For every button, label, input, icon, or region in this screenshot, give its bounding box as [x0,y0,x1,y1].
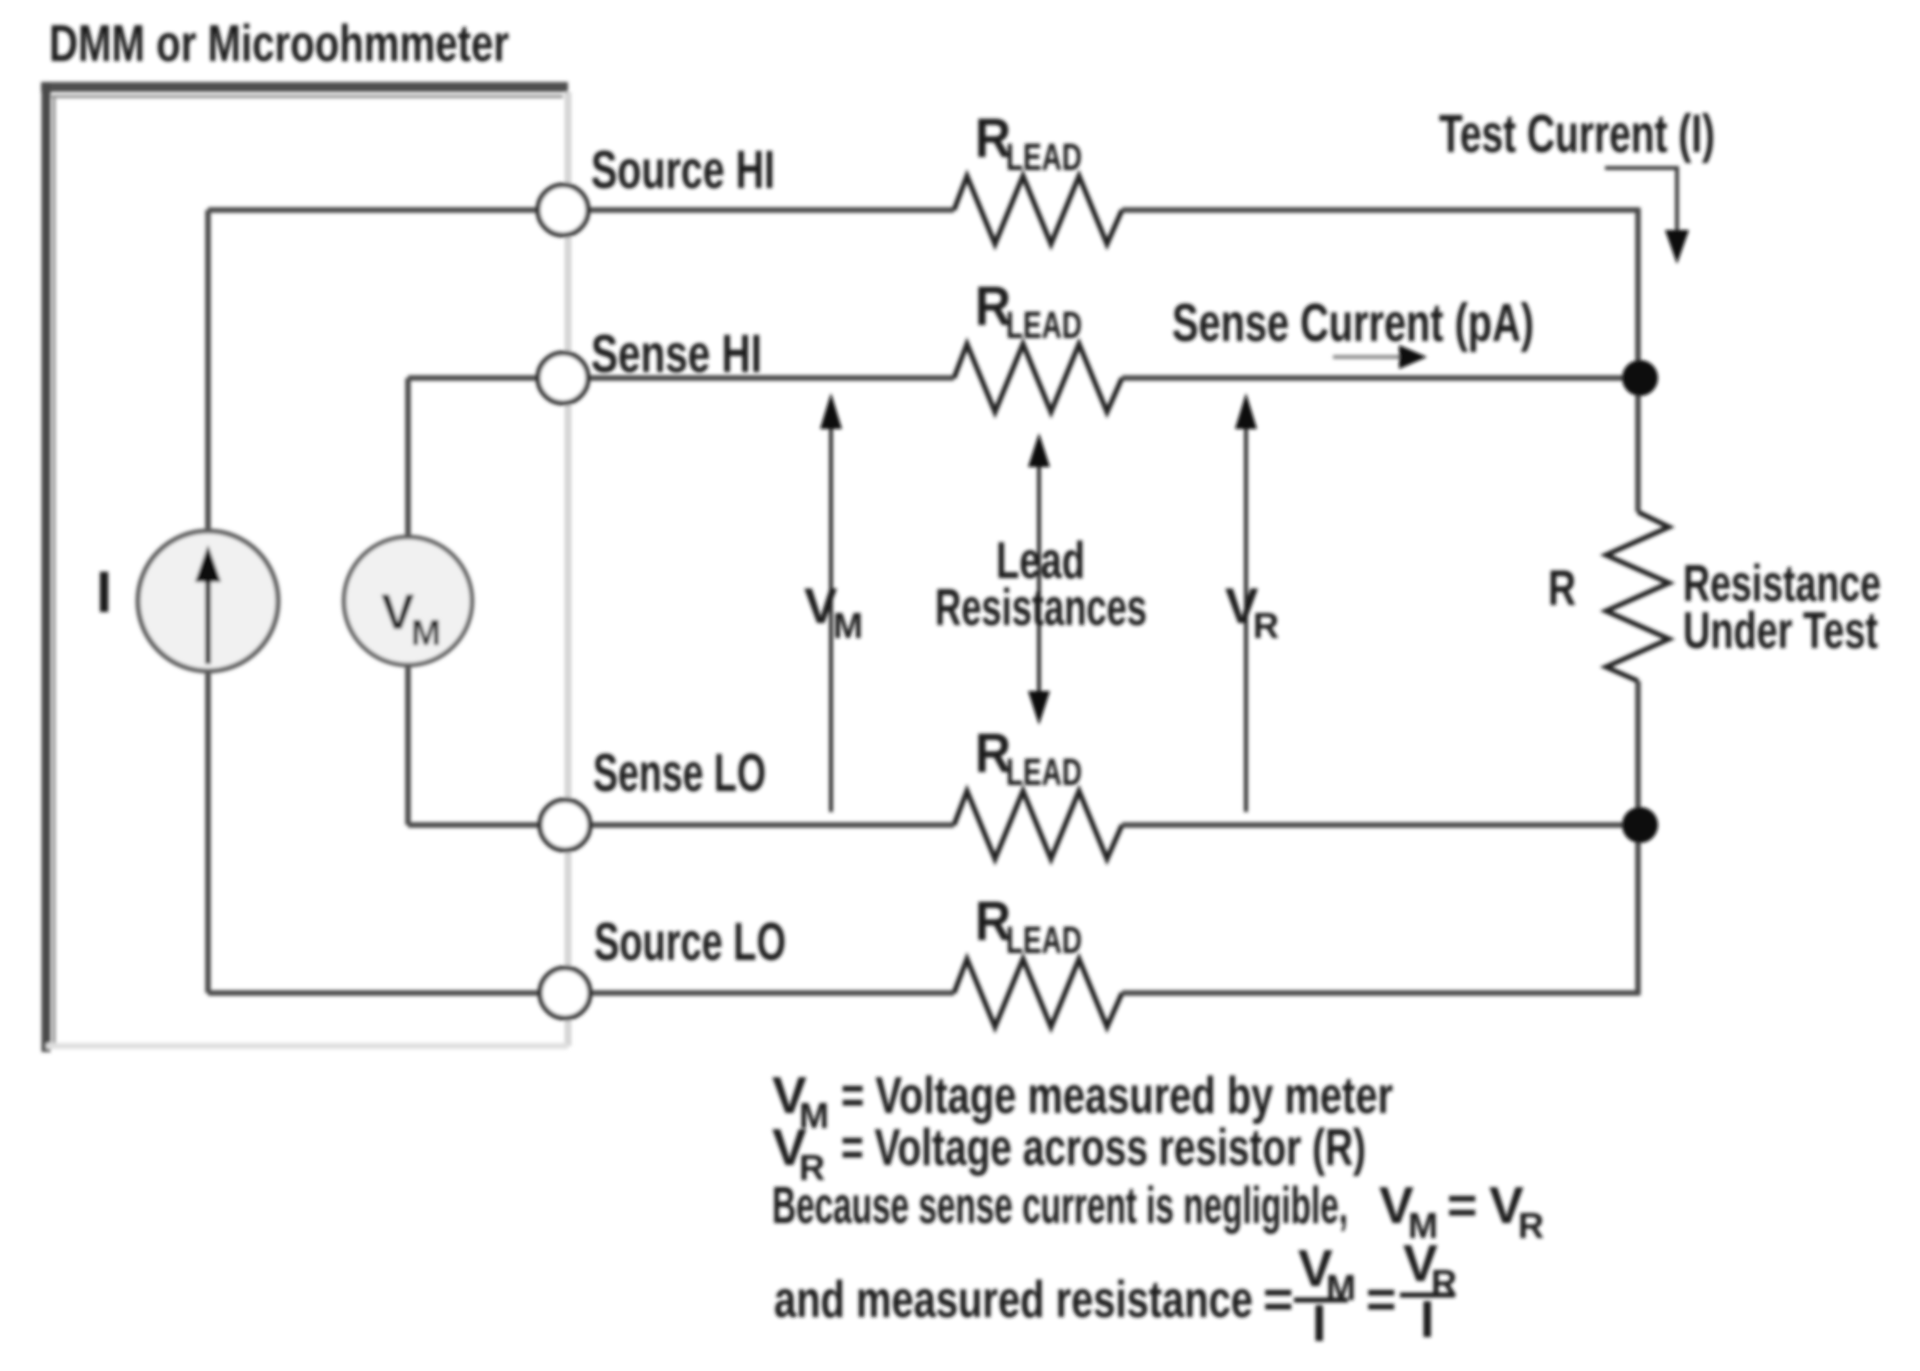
svg-text:M: M [833,605,863,646]
resistor R_LEAD (Sense HI) [954,344,1122,412]
terminal Sense LO [540,800,590,850]
svg-text:Sense Current (pA): Sense Current (pA) [1172,293,1534,353]
svg-text:Test Current (I): Test Current (I) [1439,104,1715,164]
wire: Source HI horizontal [208,207,954,213]
junction dot (Sense HI / right rail) [1622,360,1658,396]
wire: left loop vertical (current source branch) [205,210,211,993]
svg-text:R: R [1253,605,1279,646]
sense current arrow [1333,345,1427,369]
svg-text:R: R [1518,1205,1544,1246]
svg-text:LEAD: LEAD [1006,752,1082,794]
current source I [138,531,278,671]
svg-text:LEAD: LEAD [1006,305,1082,347]
label R_LEAD (Sense HI) [975,274,1082,347]
test current hook arrow [1605,168,1689,264]
svg-text:LEAD: LEAD [1006,137,1082,179]
label R_LEAD (Source HI) [975,106,1082,179]
svg-text:Sense HI: Sense HI [591,324,762,384]
svg-text:I: I [96,560,112,625]
label R_LEAD (Source LO) [975,889,1082,962]
arrow V_M (voltage measured) [820,393,842,812]
equation line 3: Because sense current is negligible, VM = VR [772,1177,1544,1246]
DMM enclosure box (left edge) [46,82,54,1052]
terminal Source LO [540,968,590,1018]
equation line 2: VR = Voltage across resistor (R) [772,1119,1366,1188]
resistor R_LEAD (Source LO) [954,959,1122,1027]
wire: Sense LO horizontal [408,822,954,828]
svg-text:Because sense current is negli: Because sense current is negligible, [772,1177,1348,1235]
equation line 4: and measured resistance = VM/I = VR/I [774,1235,1457,1353]
label V_R (arrow) [1225,578,1279,646]
resistor R_LEAD (Sense LO) [954,791,1122,859]
svg-text:DMM or Microohmmeter: DMM or Microohmmeter [49,15,509,73]
wire: Source LO horizontal [208,990,954,996]
arrow V_R (voltage across R) [1235,393,1257,812]
svg-text:and measured resistance: and measured resistance [774,1271,1253,1329]
voltmeter V_M [344,537,472,665]
svg-text:= Voltage across resistor (R): = Voltage across resistor (R) [841,1119,1366,1177]
terminal Sense HI [538,353,588,403]
label V_M (arrow) [804,578,863,646]
wire: right rail vertical [1635,208,1641,512]
svg-text:Source HI: Source HI [591,140,775,200]
label Lead Resistances [935,532,1147,637]
wire: V_M meter vertical [405,378,411,825]
svg-text:=: = [1366,1271,1396,1329]
svg-text:R: R [1548,560,1576,616]
terminal Source HI [538,185,588,235]
label Resistance Under Test [1683,555,1881,660]
junction dot (Sense LO / right rail) [1622,807,1658,843]
svg-text:=: = [1447,1177,1477,1235]
svg-text:I: I [1312,1295,1326,1353]
DMM enclosure box (right edge, light) [565,92,572,1046]
svg-text:LEAD: LEAD [1006,920,1082,962]
svg-text:M: M [411,612,441,653]
svg-text:Source LO: Source LO [594,912,786,972]
svg-text:= Voltage measured by meter: = Voltage measured by meter [841,1067,1393,1125]
svg-text:Sense LO: Sense LO [593,743,766,803]
arrow Lead Resistances (double) [1028,433,1050,725]
equation line 1: VM = Voltage measured by meter [772,1067,1393,1136]
DMM enclosure box (top edge) [41,87,568,97]
label R_LEAD (Sense LO) [975,721,1082,794]
wire: Sense HI horizontal [408,375,954,381]
DMM enclosure box (bottom edge, light) [46,1043,568,1049]
resistor R (Resistance Under Test) [1606,512,1669,681]
svg-text:V: V [381,584,415,640]
resistor R_LEAD (Source HI) [954,176,1122,244]
svg-text:Resistances: Resistances [935,579,1147,637]
svg-text:I: I [1420,1291,1434,1349]
svg-text:=: = [1263,1271,1293,1329]
svg-text:Under Test: Under Test [1683,602,1878,660]
